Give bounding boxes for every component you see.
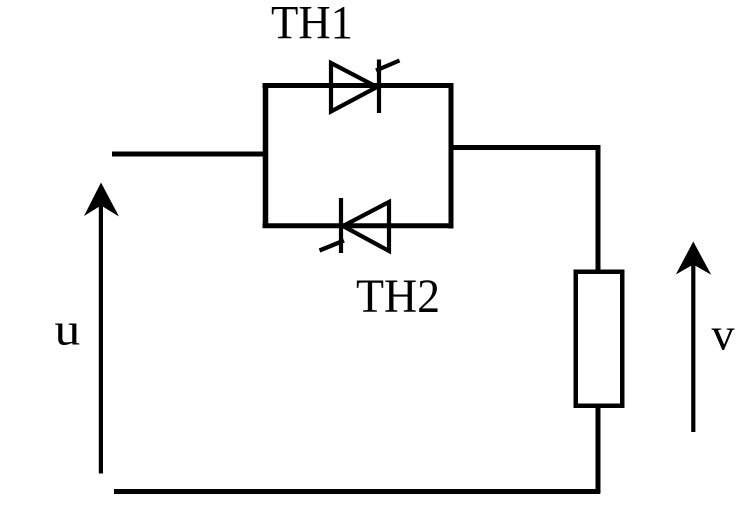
wire bottom branch <box>263 223 452 228</box>
thyristor TH1 <box>331 60 400 114</box>
arrow v <box>676 242 711 433</box>
label TH1 <box>271 0 353 50</box>
svg-text:u: u <box>55 303 81 355</box>
svg-text:TH2: TH2 <box>356 270 440 323</box>
label TH2 <box>356 270 440 323</box>
thyristor TH2 <box>320 198 390 253</box>
wire bottom return <box>114 489 600 494</box>
wire top branch <box>263 83 452 88</box>
wire parallel-box right vertical <box>449 83 454 229</box>
wire right vertical upper <box>596 145 601 271</box>
resistor load <box>576 272 623 406</box>
wire parallel-box left vertical <box>263 83 269 228</box>
svg-text:v: v <box>712 309 735 360</box>
arrow u <box>84 183 119 474</box>
wire right vertical lower <box>596 407 601 494</box>
label v <box>712 309 735 360</box>
svg-text:TH1: TH1 <box>271 0 353 50</box>
wire middle to load <box>449 145 599 150</box>
label u <box>55 303 81 355</box>
wire left input <box>112 152 266 157</box>
